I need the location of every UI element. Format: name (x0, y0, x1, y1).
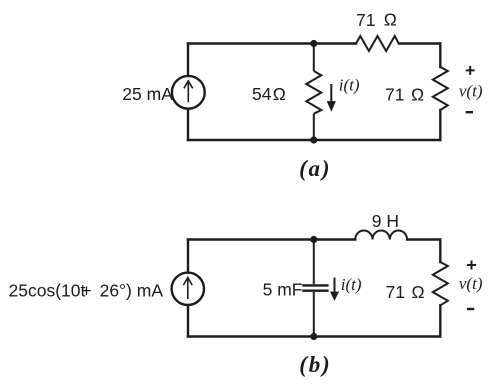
svg-text:i(t): i(t) (341, 275, 362, 294)
svg-text:9 H: 9 H (372, 211, 399, 231)
svg-text:71: 71 (386, 282, 405, 302)
svg-text:71: 71 (356, 10, 375, 30)
svg-text:i(t): i(t) (339, 76, 360, 95)
svg-text:25cos(10t+26°) mA: 25cos(10t+26°) mA (9, 280, 164, 300)
svg-text:v(t): v(t) (459, 82, 483, 101)
svg-text:(a): (a) (299, 156, 331, 181)
svg-text:Ω: Ω (273, 84, 286, 104)
svg-text:v(t): v(t) (459, 274, 483, 293)
svg-text:71: 71 (385, 85, 404, 105)
svg-text:Ω: Ω (411, 85, 424, 105)
svg-text:(b): (b) (299, 352, 331, 377)
svg-text:5 mF: 5 mF (263, 280, 303, 300)
svg-text:54: 54 (252, 84, 272, 104)
svg-text:Ω: Ω (384, 10, 397, 30)
svg-text:25 mA: 25 mA (122, 84, 173, 104)
svg-text:Ω: Ω (412, 282, 425, 302)
